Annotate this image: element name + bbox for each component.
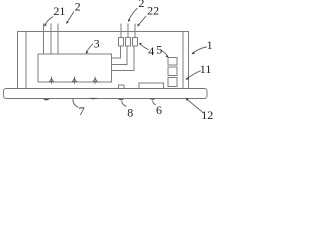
foot pin f3 [94,77,96,85]
leader 7 [73,99,78,108]
svg-text:2: 2 [138,0,144,10]
leader 2 left [67,12,74,24]
right pin group 2/22 [121,23,135,37]
svg-text:11: 11 [200,62,212,76]
left pin group 2/21 [44,23,59,54]
leader 22 [138,16,146,26]
svg-text:5: 5 [156,42,162,56]
arrowhead 21 [44,23,47,26]
leader 5 [162,50,168,56]
arrowhead 2 right [128,19,131,22]
rubber foot 7a [43,99,50,101]
housing outer shell 1 [18,32,189,88]
component body 3 [38,54,112,82]
small box 8 on base [118,85,124,88]
arrowhead 4 [139,43,142,46]
stacked box 5 (top) [168,58,177,66]
leader 12 [186,98,204,113]
svg-text:8: 8 [127,105,133,119]
svg-text:6: 6 [156,103,162,117]
svg-text:1: 1 [207,38,213,52]
wire w1 [112,46,121,58]
foot pin f2 [73,77,75,85]
svg-text:21: 21 [53,4,65,18]
leader 21 [45,17,54,26]
wire w3 [112,46,134,70]
leader 6 [153,101,156,105]
leader 3 [86,44,93,54]
wide box 6 on base [139,83,163,88]
leader 2 right [128,8,137,21]
foot triangle f2 [72,78,76,81]
stacked box (bottom) [168,78,177,87]
arrowhead 1 [192,52,195,55]
rubber foot 6b [149,99,156,100]
foot triangle f3 [93,78,97,81]
stacked box (middle) [168,67,177,75]
base plate 12 [4,89,208,99]
wire w2 [112,46,128,64]
svg-text:12: 12 [201,108,213,120]
arrowhead 11 [186,77,189,80]
foot pin f1 [51,77,53,85]
arrowhead 22 [137,24,140,27]
arrowhead 12 [185,98,188,101]
arrowhead 3 [86,51,89,54]
svg-text:22: 22 [147,4,159,18]
arrowhead 2 left [66,21,69,24]
svg-text:3: 3 [94,36,100,50]
rubber foot 7b [89,98,98,99]
svg-text:7: 7 [79,104,85,118]
rubber foot 8b [118,99,124,100]
leader 4 [140,44,149,50]
svg-text:2: 2 [75,0,81,14]
inner left wall [25,32,27,88]
leader 11 [187,71,201,79]
arrowhead 5 [166,55,169,58]
leader 1 [192,47,207,54]
small square 4 (third) [133,38,138,47]
svg-text:4: 4 [148,44,154,58]
small square 4 (second) [126,38,131,47]
leader 8 [122,101,127,106]
inner right wall 11 [182,32,184,88]
small square 4 (first) [119,38,124,47]
foot triangle f1 [50,78,54,81]
